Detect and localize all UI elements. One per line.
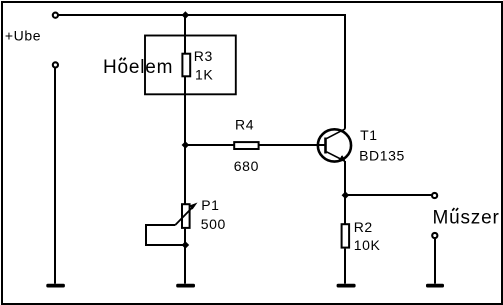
svg-text:P1: P1 <box>201 197 219 213</box>
svg-text:Muszer: Muszer <box>433 208 500 229</box>
svg-text:R2: R2 <box>354 219 373 235</box>
svg-text:+Ube: +Ube <box>5 27 41 43</box>
svg-text:Hoelem: Hoelem <box>103 57 173 78</box>
svg-text:680: 680 <box>234 158 259 174</box>
svg-text:BD135: BD135 <box>359 147 405 163</box>
svg-text:R4: R4 <box>235 117 254 133</box>
svg-text:1K: 1K <box>195 67 213 83</box>
svg-text:R3: R3 <box>194 48 213 64</box>
svg-text:T1: T1 <box>360 127 378 143</box>
svg-text:10K: 10K <box>354 237 381 253</box>
svg-text:500: 500 <box>201 216 226 232</box>
